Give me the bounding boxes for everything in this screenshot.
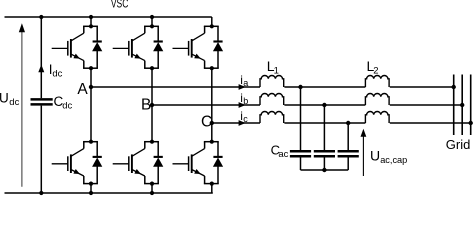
inductor L2 phase c <box>365 112 389 124</box>
label C_ac <box>271 142 289 160</box>
inductor L2 phase b <box>365 94 389 106</box>
node: upper cell A split/junction bars <box>83 24 98 70</box>
node label B <box>141 96 151 113</box>
node: lower cell A split/junction bars <box>83 140 98 186</box>
wire: DC bottom rail <box>5 192 213 194</box>
wire: grid bus bar 3 <box>469 75 473 136</box>
wire: phase b line <box>152 104 462 106</box>
diode upper antiparallel leg A <box>92 26 102 68</box>
node label A <box>77 81 88 98</box>
transistor lower IGBT leg C <box>173 142 205 184</box>
capacitor C_ac phase b <box>314 103 335 170</box>
svg-text:C: C <box>201 113 212 130</box>
current arrow i_a <box>239 84 246 90</box>
node B <box>150 103 154 107</box>
svg-text:a: a <box>243 78 248 88</box>
wire: leg B midpoint <box>151 68 153 142</box>
svg-text:A: A <box>77 81 88 98</box>
wire: C_dc branch <box>39 15 43 195</box>
wire: grid bus bar 1 <box>452 75 456 136</box>
wire: lower cell to bottom rail, leg A <box>89 184 93 195</box>
wire: grid bus bar 2 <box>460 75 464 136</box>
svg-text:dc: dc <box>62 101 72 112</box>
label Grid <box>446 137 471 152</box>
capacitor C_ac phase a <box>290 85 311 170</box>
wire: phase c line <box>212 122 471 124</box>
svg-text:ac,cap: ac,cap <box>380 155 407 165</box>
inductor L1 phase c <box>260 112 284 124</box>
wire: phase a line <box>91 86 454 88</box>
svg-text:2: 2 <box>373 66 378 77</box>
svg-text:VSC: VSC <box>111 0 129 11</box>
voltage arrow U_ac,cap <box>361 129 367 176</box>
voltage arrow U_dc <box>19 23 25 187</box>
node C <box>210 121 214 125</box>
label I_dc <box>49 62 63 79</box>
node: upper cell C split/junction bars <box>204 24 219 70</box>
wire: leg C midpoint <box>211 68 213 142</box>
wire: C_ac star-point bus <box>301 168 349 172</box>
diode lower antiparallel leg A <box>92 142 102 184</box>
wire: lower cell to bottom rail, leg C <box>211 184 213 193</box>
svg-text:dc: dc <box>52 69 62 80</box>
label L1 <box>267 58 279 77</box>
svg-text:ac: ac <box>278 149 288 160</box>
current arrow i_b <box>239 102 246 108</box>
node label C <box>201 113 212 130</box>
current arrow I_dc <box>38 65 44 73</box>
svg-text:U: U <box>0 91 9 106</box>
label VSC <box>111 0 129 11</box>
label i_b <box>240 91 248 106</box>
node: lower cell B split/junction bars <box>144 140 159 186</box>
svg-text:U: U <box>370 147 380 163</box>
node: lower cell C split/junction bars <box>204 140 219 186</box>
svg-text:1: 1 <box>274 66 279 77</box>
transistor upper IGBT leg C <box>173 26 205 68</box>
label i_c <box>240 109 248 124</box>
label L2 <box>367 58 379 77</box>
inductor L1 phase b <box>260 94 284 106</box>
wire: top rail to upper cell, leg C <box>211 17 213 26</box>
transistor lower IGBT leg B <box>113 142 145 184</box>
svg-text:c: c <box>243 114 248 124</box>
wire: lower cell to bottom rail, leg B <box>150 184 154 195</box>
diode lower antiparallel leg C <box>213 142 223 184</box>
wire: leg A midpoint <box>90 68 92 142</box>
diode upper antiparallel leg C <box>213 26 223 68</box>
diode upper antiparallel leg B <box>153 26 163 68</box>
svg-text:B: B <box>141 96 151 113</box>
transistor lower IGBT leg A <box>52 142 84 184</box>
wire: DC top rail <box>5 16 212 18</box>
inductor L1 phase a <box>260 76 284 88</box>
node A <box>89 85 93 89</box>
label i_a <box>240 73 248 88</box>
svg-text:b: b <box>243 96 248 106</box>
label U_ac,cap <box>370 147 407 164</box>
inductor L2 phase a <box>365 76 389 88</box>
diode lower antiparallel leg B <box>153 142 163 184</box>
wire: top rail to upper cell, leg B <box>150 15 154 26</box>
transistor upper IGBT leg B <box>113 26 145 68</box>
capacitor C_dc <box>31 99 53 104</box>
label C_dc <box>54 94 73 112</box>
node: upper cell B split/junction bars <box>144 24 159 70</box>
current arrow i_c <box>239 120 246 126</box>
capacitor C_ac phase c <box>338 121 359 170</box>
svg-text:Grid: Grid <box>446 137 471 152</box>
svg-text:dc: dc <box>9 97 19 108</box>
wire: top rail to upper cell, leg A <box>89 15 93 26</box>
label U_dc <box>0 91 20 108</box>
transistor upper IGBT leg A <box>52 26 84 68</box>
